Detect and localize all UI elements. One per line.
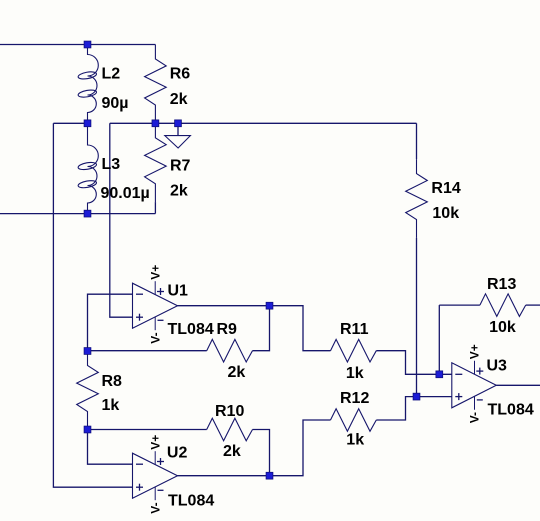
wire R11 right to U3 - input (376, 351, 452, 375)
wire U1 output (178, 305, 270, 307)
resistor R10 (207, 418, 253, 441)
wire U1 - input feed (88, 294, 133, 351)
wire R7 bottom stub to rail (154, 202, 156, 214)
wire bottom-left rail (0, 213, 155, 215)
resistor R14 (406, 159, 428, 238)
node junction U3 - input (436, 371, 443, 378)
svg-text:TL084: TL084 (168, 492, 214, 509)
svg-text:V-: V- (468, 412, 482, 423)
svg-text:1k: 1k (346, 431, 364, 448)
svg-text:90.01µ: 90.01µ (101, 185, 150, 202)
node junction L3 bottom (84, 210, 91, 217)
svg-text:R8: R8 (102, 373, 123, 390)
wire R9 row (88, 350, 207, 352)
wire R13 row left (439, 304, 480, 306)
op-amp U2 (133, 451, 178, 500)
resistor R7 (145, 123, 167, 202)
svg-text:V-: V- (148, 332, 162, 343)
wire vertical feed to U1 + input (110, 123, 133, 317)
inductor L2 (78, 45, 99, 124)
svg-text:L2: L2 (102, 65, 121, 82)
wire U1 output to R11 (270, 306, 331, 351)
svg-text:1k: 1k (346, 365, 364, 382)
svg-text:R12: R12 (340, 390, 369, 407)
svg-text:V+: V+ (148, 435, 162, 450)
wire R14 column (416, 123, 418, 159)
svg-text:TL084: TL084 (168, 321, 214, 338)
resistor R13 (480, 294, 526, 317)
svg-text:R10: R10 (215, 403, 244, 420)
svg-text:U3: U3 (487, 358, 508, 375)
node junction U3 + input (413, 393, 420, 400)
wire U3 output to edge (496, 384, 540, 386)
node junction R8 bottom / R10 (84, 426, 91, 433)
wire long left vertical to U2 + input (53, 123, 132, 487)
svg-text:V-: V- (148, 502, 162, 513)
resistor R6 (145, 45, 167, 124)
svg-text:R6: R6 (170, 65, 191, 82)
resistor R9 (207, 339, 253, 362)
svg-text:R13: R13 (487, 276, 516, 293)
resistor R8 (77, 351, 99, 430)
svg-text:U2: U2 (167, 445, 188, 462)
resistor R11 (331, 339, 377, 362)
svg-text:V+: V+ (148, 265, 162, 280)
svg-text:TL084: TL084 (488, 401, 534, 418)
node junction ground tap (175, 120, 182, 127)
wire R10 row (88, 429, 207, 431)
wire R13 left vertical to U3 - node (438, 305, 440, 374)
wire top input rail (0, 44, 155, 46)
op-amp U1 (133, 281, 178, 330)
wire mid rail to R14 (110, 122, 417, 124)
svg-text:R14: R14 (431, 180, 460, 197)
svg-text:V+: V+ (468, 344, 482, 359)
svg-text:90µ: 90µ (102, 95, 129, 112)
svg-text:1k: 1k (102, 397, 120, 414)
node junction U2 output (266, 472, 273, 479)
wire U2 - input feed (88, 430, 133, 465)
wire U2 output to R12 (270, 420, 331, 476)
svg-text:2k: 2k (223, 443, 241, 460)
node junction L2/L3 mid (84, 120, 91, 127)
node junction U1 output (266, 302, 273, 309)
wire R9 right to U1 output node (253, 306, 270, 351)
svg-text:R9: R9 (217, 321, 238, 338)
svg-text:L3: L3 (102, 156, 121, 173)
svg-text:10k: 10k (432, 205, 459, 222)
wire R10 right to U2 output node (253, 430, 270, 476)
inductor L3 (78, 123, 99, 213)
svg-text:10k: 10k (489, 319, 516, 336)
svg-text:R7: R7 (170, 157, 191, 174)
svg-text:2k: 2k (170, 182, 188, 199)
svg-text:2k: 2k (170, 91, 188, 108)
resistor R12 (331, 409, 377, 432)
wire left rail segment to L2/L3 node (53, 122, 87, 124)
node junction R6/R7 (152, 120, 159, 127)
wire R14 bottom to U3 + node (416, 238, 418, 397)
wire R13 row right to edge (526, 304, 540, 306)
op-amp U3 (452, 361, 497, 410)
wire U2 output (178, 475, 270, 477)
node junction L2 top (84, 41, 91, 48)
svg-text:U1: U1 (168, 283, 189, 300)
svg-text:R11: R11 (340, 321, 369, 338)
node junction R8 top / R9 (84, 348, 91, 355)
wire R12 right to U3 + input (376, 397, 452, 420)
ground (165, 123, 191, 148)
svg-text:2k: 2k (228, 364, 246, 381)
